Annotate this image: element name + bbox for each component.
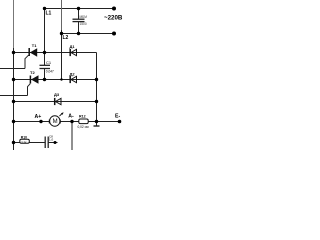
svg-text:А+: А+ bbox=[35, 114, 42, 120]
svg-text:Д1: Д1 bbox=[70, 44, 76, 49]
svg-text:R12: R12 bbox=[79, 115, 86, 119]
svg-text:Д2: Д2 bbox=[70, 72, 76, 77]
svg-text:L2: L2 bbox=[63, 35, 69, 41]
svg-text:Д3: Д3 bbox=[54, 92, 60, 97]
svg-text:~220В: ~220В bbox=[104, 15, 123, 22]
svg-text:R10: R10 bbox=[21, 135, 27, 139]
svg-text:Т2: Т2 bbox=[30, 70, 35, 75]
svg-text:1,1к: 1,1к bbox=[21, 140, 27, 144]
svg-text:1,0: 1,0 bbox=[49, 138, 54, 142]
svg-text:L1: L1 bbox=[46, 11, 52, 17]
svg-text:Е-: Е- bbox=[115, 113, 120, 119]
svg-text:Т1: Т1 bbox=[32, 43, 37, 48]
svg-text:0,047: 0,047 bbox=[46, 69, 54, 73]
svg-text:МБМ: МБМ bbox=[80, 15, 88, 19]
svg-text:0,02 ом: 0,02 ом bbox=[78, 125, 89, 129]
svg-text:М: М bbox=[53, 119, 58, 125]
svg-text:С1: С1 bbox=[46, 60, 52, 65]
svg-text:1500: 1500 bbox=[80, 22, 87, 26]
svg-text:А-: А- bbox=[68, 113, 74, 119]
